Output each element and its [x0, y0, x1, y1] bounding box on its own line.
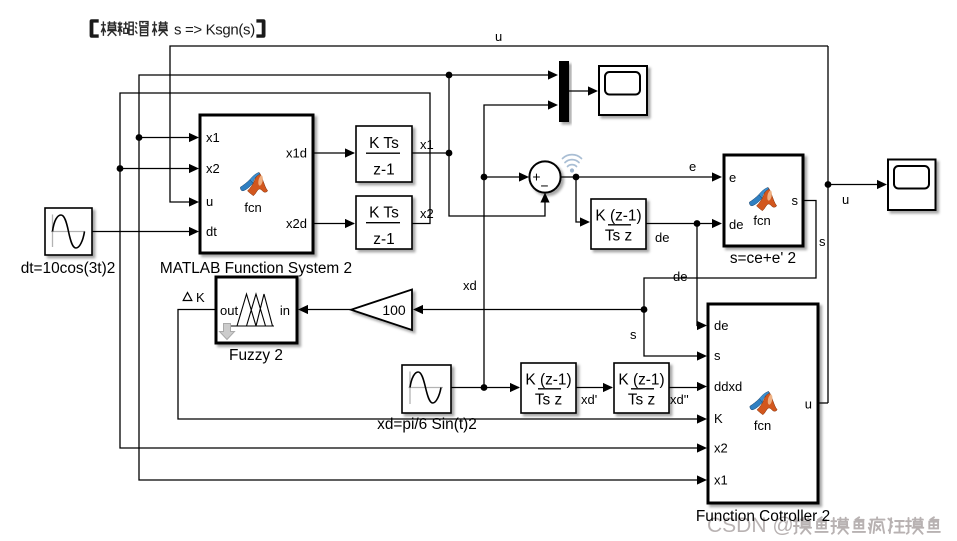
- svg-text:+: +: [532, 169, 540, 185]
- watermark CSDN text: [707, 514, 940, 537]
- svg-text:xd'': xd'': [670, 392, 689, 407]
- svg-text:K Ts: K Ts: [369, 204, 399, 221]
- block MATLAB Function System 2: [200, 115, 313, 253]
- svg-text:K (z-1): K (z-1): [618, 372, 664, 389]
- arrowhead s into Gain: [413, 305, 423, 314]
- svg-text:dt: dt: [206, 224, 217, 239]
- wire s net: [420, 201, 816, 357]
- svg-text:100: 100: [382, 302, 406, 318]
- block DerivB: [614, 363, 669, 413]
- mux Mux1: [559, 61, 569, 122]
- fuzzy gray badge arrow: [220, 324, 235, 340]
- svg-text:xd=pi/6 Sin(t)2: xd=pi/6 Sin(t)2: [377, 416, 477, 433]
- svg-text:s: s: [630, 327, 637, 342]
- arrowhead u into Scope2: [877, 180, 887, 189]
- arrowhead de into Controller: [697, 321, 707, 330]
- junction x1 branch: [136, 72, 453, 157]
- sum block: [529, 161, 560, 192]
- arrowhead xd into DerivA: [510, 383, 520, 392]
- wire x1 net: [139, 75, 699, 480]
- svg-text:z-1: z-1: [373, 162, 394, 179]
- junction de: [694, 220, 701, 227]
- svg-text:fcn: fcn: [754, 418, 771, 433]
- svg-text:K: K: [196, 290, 205, 305]
- wire gain out to Fuzzy in: [305, 309, 351, 311]
- arrowhead e into DerivC: [580, 217, 590, 226]
- wire K net Fuzzy out to Controller: [178, 310, 699, 420]
- svg-text:u: u: [495, 29, 502, 44]
- arrowhead x1 into MATLAB fn: [189, 133, 199, 142]
- svg-text:de: de: [673, 269, 687, 284]
- svg-text:z-1: z-1: [373, 231, 394, 248]
- junction xd: [481, 174, 488, 391]
- svg-text:x2d: x2d: [286, 216, 307, 231]
- wire ddxd DerivB to Controller: [669, 387, 699, 389]
- svg-text:x1: x1: [206, 130, 220, 145]
- block Gain 100: [351, 290, 412, 331]
- svg-text:−: −: [540, 178, 548, 194]
- wire xd-prime DerivA to DerivB: [576, 387, 612, 389]
- svg-text:in: in: [280, 303, 290, 318]
- svg-text:s: s: [714, 348, 721, 363]
- svg-text:e: e: [689, 159, 696, 174]
- arrowhead s into Controller: [697, 351, 707, 360]
- svg-text:Ts z: Ts z: [628, 392, 655, 409]
- svg-text:K (z-1): K (z-1): [595, 208, 641, 225]
- svg-text:K (z-1): K (z-1): [525, 372, 571, 389]
- arrowhead x1 into Sum minus: [540, 193, 549, 203]
- wire dt from Sine1: [92, 231, 197, 233]
- svg-text:de: de: [714, 318, 728, 333]
- arrowhead x2 into MATLAB fn: [189, 164, 199, 173]
- arrowhead x1 into Controller x1: [697, 475, 707, 484]
- svg-text:u: u: [805, 397, 812, 412]
- svg-text:ddxd: ddxd: [714, 379, 742, 394]
- block s=ce+e_prime 2: [724, 155, 803, 246]
- arrowhead u into MATLAB fn: [189, 197, 199, 206]
- wire u feedback net: [170, 46, 877, 403]
- block Fuzzy 2: [216, 277, 297, 343]
- fuzzy membership icon: [231, 294, 274, 326]
- svg-text:x2: x2: [206, 161, 220, 176]
- svg-text:de: de: [655, 230, 669, 245]
- svg-text:s => Ksgn(s): s => Ksgn(s): [174, 21, 255, 38]
- arrowhead x2 into Controller x2: [697, 443, 707, 452]
- svg-text:out: out: [220, 303, 238, 318]
- svg-text:x1d: x1d: [286, 146, 307, 161]
- svg-text:K Ts: K Ts: [369, 135, 399, 152]
- svg-text:fcn: fcn: [244, 200, 261, 215]
- svg-text:xd: xd: [463, 278, 477, 293]
- wire e net from Sum: [561, 177, 715, 222]
- svg-text:Function Cotroller 2: Function Cotroller 2: [696, 508, 830, 525]
- wire xd net from Sine2: [451, 105, 551, 388]
- svg-text:e: e: [729, 170, 736, 185]
- block DerivA: [521, 363, 576, 413]
- junction u to Scope2: [825, 181, 832, 188]
- svg-text:u: u: [206, 194, 213, 209]
- svg-text:x2: x2: [420, 206, 434, 221]
- svg-text:u: u: [842, 192, 849, 207]
- svg-text:fcn: fcn: [753, 213, 770, 228]
- arrowhead de into s=ce: [712, 219, 722, 228]
- wire x2d: [313, 223, 354, 225]
- wire x2 net: [120, 93, 699, 448]
- block Sine2 source: [402, 365, 451, 413]
- svg-text:x2: x2: [714, 441, 728, 456]
- svg-text:dt=10cos(3t)2: dt=10cos(3t)2: [21, 260, 116, 277]
- svg-text:de: de: [729, 217, 743, 232]
- junction s to gain: [641, 306, 648, 313]
- svg-text:x1: x1: [420, 137, 434, 152]
- junction e branch: [573, 174, 580, 181]
- block DiscreteIntegrator2 K Ts/z-1: [356, 196, 412, 249]
- svg-text:s=ce+e' 2: s=ce+e' 2: [730, 250, 796, 267]
- title annotation 模糊滑模 s=>Ksgn(s): [90, 19, 266, 38]
- svg-text:K: K: [714, 411, 723, 426]
- arrowhead e into s=ce block: [712, 172, 722, 181]
- svg-text:Fuzzy 2: Fuzzy 2: [229, 347, 283, 364]
- block DerivC K(z-1)/Ts z: [591, 199, 646, 249]
- block Function Controller 2: [708, 304, 818, 503]
- svg-text:xd': xd': [581, 392, 597, 407]
- arrowhead xd into Sum plus: [519, 172, 529, 181]
- svg-text:s: s: [792, 193, 799, 208]
- wire x1d: [313, 152, 354, 154]
- block Scope1: [599, 66, 647, 115]
- block Sine1 source: [45, 208, 92, 255]
- block DiscreteIntegrator1 K Ts/z-1: [356, 126, 412, 182]
- arrowhead dt: [189, 227, 199, 236]
- svg-text:x1: x1: [714, 473, 728, 488]
- arrowhead xd into Mux in2: [548, 100, 558, 109]
- wire mux out to Scope1: [569, 90, 591, 92]
- wire de net: [646, 224, 715, 326]
- svg-text:s: s: [819, 234, 826, 249]
- logging badge wifi icon: [563, 155, 582, 173]
- arrowhead x1 into Mux in1: [548, 70, 558, 79]
- arrowhead K into Controller: [697, 414, 707, 423]
- svg-text:Ts z: Ts z: [605, 228, 632, 245]
- block Scope2: [888, 160, 936, 211]
- svg-text:MATLAB Function System 2: MATLAB Function System 2: [160, 260, 352, 277]
- svg-text:Ts z: Ts z: [535, 392, 562, 409]
- junction x2 branch: [117, 165, 124, 172]
